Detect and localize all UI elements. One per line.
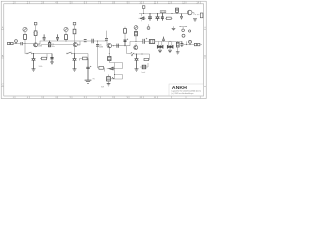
junction x125: [125, 45, 126, 46]
ground GND9 offboard: [172, 28, 176, 30]
junction p1: [143, 13, 144, 14]
wire bracket lower: [115, 63, 123, 80]
border numbers top: [13, 2, 200, 5]
junction bus1: [49, 41, 50, 42]
wire node A down to switch branch: [25, 44, 27, 54]
LED L1: [187, 10, 192, 15]
label C3b: [52, 44, 55, 48]
transistor Q4: [134, 46, 138, 50]
trimmer pot P2: [64, 27, 68, 31]
border letters left: [2, 27, 206, 87]
capacitor C10 electrolytic: [135, 54, 139, 69]
junction sw3: [136, 54, 137, 55]
transistor Q2: [73, 43, 77, 47]
capacitor C7 vertical: [86, 59, 91, 80]
junction out: [190, 44, 191, 45]
title ANKH: [172, 85, 188, 91]
border ticks left: [1, 30, 4, 87]
ground GND6: [176, 52, 180, 54]
input jack circle J1: [15, 40, 18, 43]
connector IN pads: [8, 42, 14, 44]
capacitor C14b: [161, 14, 164, 21]
label box above rail: [160, 11, 166, 13]
resistor R11 horizontal: [166, 17, 171, 19]
resistor R7 horizontal: [99, 66, 104, 69]
svg-text:A: A: [2, 27, 4, 30]
wire Q2 step to bus: [41, 41, 80, 45]
offboard bracket: [180, 27, 186, 29]
trimmer TR1: [108, 57, 111, 61]
junction x97: [97, 41, 98, 42]
resistor R5: [73, 29, 76, 34]
junction Q3 out: [113, 45, 114, 46]
border frame inner: [4, 4, 204, 96]
wire Q1 to bus: [38, 41, 107, 44]
wire SW1 to C2: [32, 53, 52, 55]
terminal circle: [147, 27, 150, 30]
diode pair D4 D5: [167, 45, 173, 48]
transistor Q1: [34, 43, 38, 47]
junction bus5: [170, 41, 171, 42]
wire x126.5 down: [126, 46, 128, 54]
label R2 value: [39, 66, 43, 68]
svg-text:SW: SW: [101, 86, 104, 88]
wire down x97.5: [97, 41, 99, 68]
title line2: [172, 92, 194, 95]
wire Q3 branch down: [108, 48, 110, 54]
wire bus to Q3: [107, 41, 130, 46]
wire flag2 to R5: [74, 25, 76, 29]
trimmer above rail: [176, 8, 179, 12]
power flag +9V: [142, 6, 145, 9]
connector OUT pads: [194, 43, 200, 45]
switch SW3: [131, 53, 134, 55]
wire R4 to P2: [65, 32, 67, 35]
svg-text:B: B: [2, 55, 4, 58]
pot P3: [107, 77, 111, 81]
svg-text:(c) 2005 multitudeofdrops: (c) 2005 multitudeofdrops: [172, 92, 194, 95]
switch SW1: [27, 52, 31, 54]
pad circle C: [182, 34, 185, 37]
capacitor C11 above bus: [162, 37, 165, 42]
wire node up R4: [65, 40, 67, 41]
ground GND4: [158, 50, 162, 52]
wire R1 to P1: [24, 32, 26, 35]
small comp on bus: [84, 40, 87, 42]
resistor R9: [144, 58, 149, 60]
transistor Q3: [107, 44, 111, 48]
wire TR3 out: [155, 40, 182, 42]
pad circle B: [189, 30, 191, 32]
wire column x125: [124, 33, 126, 40]
resistor R2: [42, 57, 47, 60]
wire led out: [193, 13, 195, 15]
svg-text:9V: 9V: [93, 78, 96, 80]
ground GND1b: [50, 62, 54, 64]
svg-text:B: B: [204, 55, 206, 58]
ground GND1: [32, 69, 36, 71]
label text1: [93, 78, 96, 80]
diode D1: [108, 67, 113, 70]
resistor R8: [135, 31, 138, 35]
ground GND7: [193, 19, 197, 21]
junction d2: [114, 68, 115, 69]
capacitor C8b electrolytic: [124, 39, 129, 46]
resistor R3: [34, 31, 37, 36]
svg-text:A: A: [204, 27, 206, 30]
switch SW2: [67, 52, 71, 54]
capacitor C6b above bus: [105, 39, 108, 41]
column flag 1: [34, 22, 37, 25]
svg-text:100k: 100k: [39, 66, 43, 68]
border ticks bottom: [15, 96, 200, 99]
capacitor C7b on wire: [96, 45, 99, 47]
wire sw3 branch: [127, 54, 150, 60]
ground GND3: [135, 69, 139, 71]
border frame outer: [1, 1, 206, 98]
capacitor C2b to ground: [50, 54, 53, 62]
wire flag to rail: [143, 8, 145, 13]
column flag 2: [73, 22, 76, 25]
junction bus4: [136, 41, 137, 42]
wire C9 to TR3: [144, 40, 149, 42]
capacitor C13 electrolytic: [148, 14, 152, 21]
capacitor C3b body: [48, 41, 50, 47]
wire node A up: [24, 39, 26, 43]
wire branch right down: [46, 54, 48, 59]
resistor R12 vertical right: [200, 13, 203, 18]
diode pair D2 D3: [157, 45, 163, 48]
wire R3 to Q1: [35, 36, 37, 43]
label TR2 value: [142, 72, 146, 74]
capacitor C12: [180, 41, 183, 47]
svg-text:level: level: [142, 72, 146, 74]
label Q1: [38, 44, 42, 48]
ground GND5: [168, 50, 172, 52]
main bus segment 4: [130, 41, 143, 45]
resistor R10: [176, 42, 179, 47]
ground GND8: [85, 80, 92, 83]
capacitor C15: [180, 14, 183, 20]
diode D6: [140, 17, 144, 20]
capacitor C1 series: [21, 42, 22, 45]
capacitor C2 electrolytic: [32, 54, 36, 69]
junction SW2: [74, 53, 75, 54]
feedback loop wires: [75, 54, 89, 61]
junction bus2: [66, 41, 67, 42]
title block box: [169, 84, 204, 96]
svg-text:5088: 5088: [38, 46, 42, 48]
wire IN to node: [13, 43, 21, 45]
capacitor C3: [43, 34, 46, 41]
junction node A: [25, 43, 26, 44]
junction input: [16, 43, 17, 44]
resistor R6: [83, 57, 88, 60]
ground GND2: [73, 69, 77, 71]
trimmer pot P1: [23, 27, 27, 31]
capacitor C14 electrolytic: [156, 14, 160, 21]
label Q2: [78, 44, 80, 46]
trimmer TR3: [149, 40, 154, 44]
wire flag to R3: [35, 25, 37, 31]
capacitor C6 series: [92, 39, 93, 44]
junction d1: [109, 53, 110, 54]
trimmer column T circle: [134, 26, 138, 30]
wire R5 down: [74, 34, 76, 43]
title line1: [172, 90, 202, 93]
power rail: [139, 13, 187, 15]
output pot circle: [189, 40, 192, 43]
label text2: [101, 86, 104, 88]
wire C1 to Q1: [22, 43, 34, 45]
junction outw: [186, 44, 187, 45]
border ticks right: [204, 30, 207, 87]
wire Q4: [135, 43, 137, 45]
svg-text:C: C: [2, 84, 4, 87]
capacitor C9 series: [143, 38, 147, 44]
capacitor C8 series: [117, 44, 118, 48]
pad circle A: [182, 29, 185, 32]
svg-text:5088: 5088: [99, 46, 103, 48]
capacitor C4: [56, 34, 59, 41]
resistor R4: [65, 35, 68, 40]
trimmer TR2: [142, 65, 146, 69]
junction SW1 out: [33, 53, 34, 54]
border ticks top: [1, 1, 206, 98]
dots trail: [194, 13, 197, 16]
resistor R1: [24, 34, 27, 39]
capacitor C5 electrolytic: [73, 54, 77, 69]
label Q3: [99, 44, 103, 48]
svg-text:10u: 10u: [52, 46, 55, 48]
wire Q2 down branch: [74, 47, 76, 54]
column x125 resistor: [124, 29, 127, 34]
